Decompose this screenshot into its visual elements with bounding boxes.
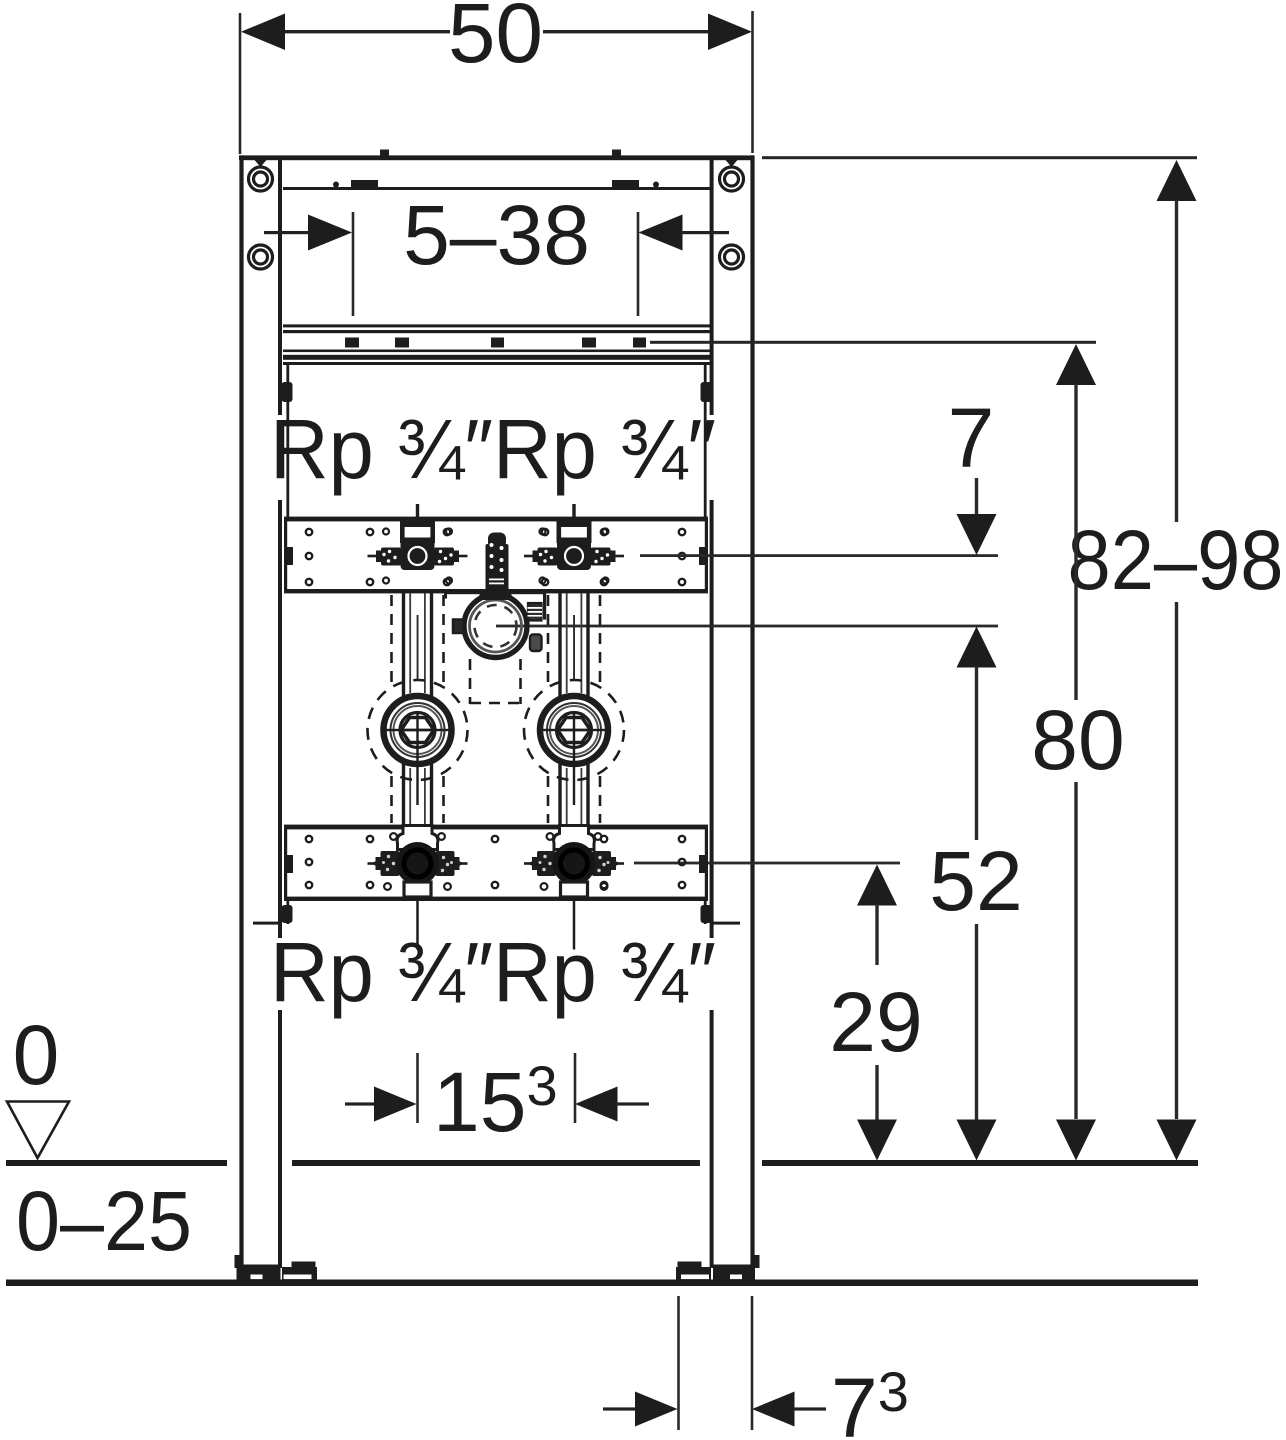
crossbar line C: [283, 350, 710, 353]
crossbar line E: [283, 362, 710, 365]
lower rail end tab right: [699, 855, 707, 873]
supply pipe left: [402, 593, 433, 826]
screw mid-left: [249, 245, 273, 269]
svg-text:153: 153: [433, 1054, 558, 1149]
dimension 5-38 arrow right shaft: [680, 231, 729, 234]
left foot: [235, 1255, 318, 1281]
upper wall fitting right (Rp 3/4): [524, 504, 624, 584]
svg-text:0: 0: [13, 1008, 60, 1102]
upper rail end tab left: [285, 547, 293, 565]
crossbar slide square 3: [491, 338, 504, 348]
panel clip right: [612, 180, 639, 188]
dimension 15-3 extension line right: [574, 1053, 577, 1123]
dimension 50 line left segment: [282, 30, 450, 33]
centre fixing bolt: [486, 533, 509, 592]
svg-text:Rp ¾″Rp ¾″: Rp ¾″Rp ¾″: [270, 925, 716, 1019]
dimension 7-3 left arrow: [603, 1407, 636, 1410]
dimension 15-3 right arrow: [575, 1087, 618, 1122]
crossbar slide square 2: [395, 338, 409, 348]
svg-text:82–98: 82–98: [1068, 513, 1284, 607]
dimension 50 extension line right: [751, 11, 754, 153]
dimension 80: [1031, 344, 1124, 1161]
dimension 50 arrowhead left: [241, 14, 285, 51]
top chord nub left: [380, 150, 389, 156]
svg-text:80: 80: [1031, 693, 1124, 787]
upper mounting rail outline: [284, 517, 708, 594]
elbow union right: [524, 680, 624, 805]
top reference line right (82-98): [762, 156, 1197, 159]
svg-text:0–25: 0–25: [16, 1174, 192, 1268]
adjuster tab upper-right: [701, 382, 712, 402]
dimension 50 line right segment: [543, 30, 711, 33]
clamp screw upper: [528, 603, 543, 621]
dimension 5-38 extension line right: [637, 212, 640, 316]
left rail inner edge middle: [278, 500, 282, 938]
dimension 15-3 left arrow: [345, 1102, 378, 1105]
dimension 7-3 extension line left: [677, 1296, 680, 1430]
supply pipe right: [558, 593, 589, 826]
screw mid-right: [720, 245, 744, 269]
svg-text:5–38: 5–38: [403, 188, 590, 282]
dimension 5-38 extension line left: [352, 212, 355, 316]
panel side vertical left: [286, 364, 289, 517]
finished floor line: [6, 1160, 1198, 1166]
clamp carrier plate: [444, 591, 546, 595]
lower side vertical left with tab: [286, 901, 289, 924]
crossbar slide square 4: [582, 338, 596, 348]
svg-text:52: 52: [929, 834, 1022, 928]
panel side vertical right: [704, 364, 707, 517]
lower rail end tab left: [285, 855, 293, 873]
dimension 52: [929, 627, 1022, 1161]
right rail inner edge middle: [710, 500, 714, 938]
panel clip left: [351, 180, 378, 188]
dimension 15-3 extension line left: [416, 1053, 419, 1123]
dimension 5-38 arrow left shaft: [264, 231, 312, 234]
lower mounting rail outline: [284, 825, 708, 901]
upper rail holes: [306, 529, 685, 585]
pipe clamp circle: [464, 592, 527, 658]
angle stop valve left: [368, 825, 468, 950]
supply pipe right dashed envelope: [548, 595, 600, 823]
lower side vertical right with tab: [704, 901, 707, 924]
screw top-right: [720, 167, 744, 191]
clamp left lug: [453, 620, 464, 634]
left rail inner edge lower: [278, 1010, 282, 1268]
top chord notch left: [255, 160, 267, 167]
top chord nub right: [612, 150, 621, 156]
dimension 50 extension line left: [239, 13, 242, 154]
raw slab line: [6, 1280, 1198, 1287]
dimension 7-3 right arrow: [752, 1392, 795, 1427]
crossbar line B: [283, 330, 710, 333]
supply pipe left dashed envelope: [392, 595, 444, 823]
reference leader for dim 7 (upper fitting axis): [640, 554, 998, 557]
panel clip dot left: [333, 182, 339, 188]
lower rail holes: [306, 836, 685, 888]
svg-text:50: 50: [448, 0, 543, 80]
left rail inner edge upper: [278, 158, 282, 415]
dimension 5-38 arrowhead left: [308, 215, 352, 251]
dimension 50 arrowhead right: [708, 14, 752, 51]
crossbar slide square 1: [345, 338, 359, 348]
right rail inner edge upper: [710, 158, 714, 415]
svg-text:Rp ¾″Rp ¾″: Rp ¾″Rp ¾″: [270, 402, 716, 496]
reference leader for dim 52 (supply axis): [496, 625, 998, 628]
angle stop valve right: [524, 825, 624, 950]
left rail outer edge: [239, 155, 243, 1267]
dimension 29: [829, 865, 922, 1161]
dimension 7 (vertical): [948, 391, 997, 555]
top panel lower chord: [283, 187, 710, 190]
svg-text:29: 29: [829, 975, 922, 1069]
right rail inner edge lower: [710, 1010, 714, 1268]
reference line for dim 80: [650, 341, 1096, 344]
reference leader for dim 29 (lower fitting axis): [634, 862, 900, 865]
svg-text:73: 73: [831, 1360, 909, 1440]
dashed duct below clamp: [470, 659, 521, 704]
dimension 5-38 arrowhead right: [639, 215, 683, 251]
right foot: [676, 1255, 760, 1281]
adjuster tab upper-left: [282, 382, 293, 402]
crossbar line A: [283, 324, 710, 327]
dimension 82-98: [1068, 160, 1284, 1161]
frame top chord: [239, 155, 755, 160]
upper wall fitting left (Rp 3/4): [368, 504, 468, 584]
clamp screw lower: [530, 635, 542, 652]
top chord notch right: [726, 160, 738, 167]
level triangle: [7, 1102, 69, 1159]
crossbar line D thick: [283, 355, 710, 360]
svg-text:7: 7: [948, 391, 995, 485]
elbow union left: [368, 680, 468, 805]
upper rail end tab right: [699, 547, 707, 565]
right rail outer edge: [750, 155, 754, 1267]
screw top-left: [249, 167, 273, 191]
panel clip dot right: [653, 182, 659, 188]
dimension 7-3 extension line right: [751, 1296, 754, 1430]
crossbar slide square 5: [633, 338, 646, 348]
